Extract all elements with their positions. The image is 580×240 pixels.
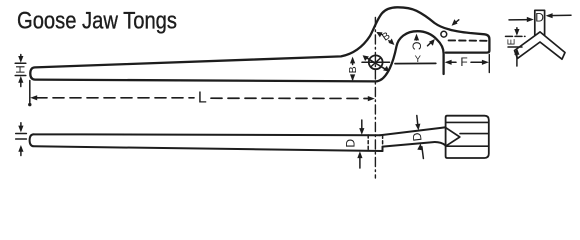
svg-text:Y: Y — [415, 54, 422, 65]
svg-text:H: H — [16, 65, 28, 73]
svg-text:E: E — [507, 38, 518, 45]
dimension E — [506, 28, 526, 66]
dimension H (handle thickness, left end) — [15, 55, 27, 87]
dimension L extension line and dot — [29, 81, 31, 103]
chevron jaw cross-section — [515, 32, 566, 59]
bottom-left thickness dimension — [16, 123, 27, 156]
bottom view: lower arm bar — [30, 134, 383, 151]
cross-section detail: stem outline — [535, 10, 545, 36]
jaw hidden centerline (dashed) — [449, 39, 489, 41]
F right extension line — [488, 55, 490, 73]
pivot horizontal centerline — [362, 61, 390, 63]
dimension F — [445, 55, 490, 73]
tong body outline (side view: handle, hump, jaw, throat arch) — [30, 7, 489, 81]
bottom view: angled jaw shank — [380, 127, 446, 151]
svg-text:Goose Jaw Tongs: Goose Jaw Tongs — [17, 8, 177, 35]
vertical centerline through pivot (dash-dot) — [374, 18, 376, 179]
dimension C (throat height, rotated label) — [409, 34, 423, 51]
O leader arrow to throat — [428, 42, 433, 46]
dimension L (dashed line with arrows) — [30, 89, 375, 106]
dimension B (neck thickness on hump) — [376, 30, 394, 45]
svg-text:C: C — [409, 41, 423, 50]
dimension D (angled shank) — [410, 116, 425, 159]
svg-text:B: B — [347, 66, 359, 73]
pivot rivet circle — [369, 55, 383, 69]
striker block (serrated head) — [446, 116, 489, 158]
pivot inner cross stroke — [371, 58, 380, 66]
detail D right arrow — [548, 14, 571, 16]
shank wedge into striker block — [446, 128, 460, 147]
dimension D (lower bar, left of pivot) — [344, 120, 365, 168]
dimension B (handle depth at pivot) — [347, 57, 359, 82]
bite line (jaw meeting face) — [395, 62, 436, 64]
svg-text:L: L — [198, 89, 207, 106]
pivot diagonal arrow (NW-SE through rivet) — [365, 57, 387, 70]
svg-text:D: D — [344, 139, 358, 148]
striker block serration lines — [446, 122, 489, 146]
detail D left arrow — [509, 19, 531, 21]
dimension O circle label — [441, 31, 447, 37]
joint hidden lines (dashed) — [368, 135, 382, 151]
svg-text:F: F — [460, 55, 467, 69]
svg-text:D: D — [410, 131, 425, 142]
O leader arrow to notch — [454, 20, 459, 24]
svg-text:D: D — [535, 11, 544, 25]
